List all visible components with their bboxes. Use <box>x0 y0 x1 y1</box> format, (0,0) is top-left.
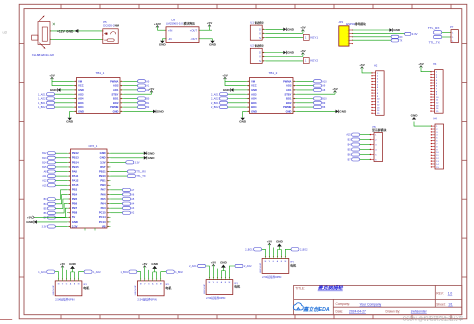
wire to net A8 <box>297 89 314 91</box>
svg-text:2_BO1: 2_BO1 <box>211 102 219 105</box>
svg-text:+5V: +5V <box>300 49 305 53</box>
svg-text:XH-8812D11-G8: XH-8812D11-G8 <box>32 53 54 57</box>
svg-text:zwhsonder: zwhsonder <box>411 310 428 314</box>
wire bottom GND <box>243 111 246 117</box>
net label A0 <box>138 80 146 83</box>
ground flag <box>72 269 74 272</box>
net label A1 <box>138 84 146 87</box>
svg-text:1_AO1: 1_AO1 <box>38 93 46 96</box>
motor driver TB1_2 <box>246 78 298 114</box>
svg-text:B12: B12 <box>42 152 47 155</box>
wire ESP32 pin3 <box>352 36 391 38</box>
svg-text:B10: B10 <box>322 98 327 101</box>
power flag +5V STBY <box>151 91 153 95</box>
svg-text:3.3V: 3.3V <box>42 225 47 228</box>
power flag +5V <box>302 30 304 34</box>
svg-text:排母模块: 排母模块 <box>355 22 366 26</box>
svg-text:2024-04-27: 2024-04-27 <box>349 310 366 314</box>
net label B7 <box>352 158 360 161</box>
svg-text:嘉立创EDA: 嘉立创EDA <box>302 306 330 313</box>
regulator module U7 LM2596S-5.0 <box>165 27 199 43</box>
svg-text:+OUT: +OUT <box>190 28 198 32</box>
wire net B15 <box>55 166 67 168</box>
net label 2_AO2 <box>235 264 243 267</box>
wire net A6 <box>111 193 123 195</box>
wire to net 1_BO2 <box>55 106 73 108</box>
svg-text:电机: 电机 <box>290 263 296 268</box>
svg-text:GND: GND <box>66 119 74 123</box>
port KEY2 <box>303 58 309 64</box>
svg-text:2.54接插件6PIN: 2.54接插件6PIN <box>262 275 281 279</box>
net label TTL_TX <box>127 175 135 178</box>
svg-text:NM: NM <box>115 24 120 28</box>
wire to net 1_AO1 <box>55 93 73 95</box>
wire to GND <box>152 272 154 279</box>
svg-text:PWMB: PWMB <box>110 105 118 109</box>
svg-text:GND: GND <box>50 88 58 92</box>
svg-text:+12V: +12V <box>154 22 161 26</box>
svg-text:+12V: +12V <box>57 29 66 33</box>
wire to net B9 <box>297 102 314 104</box>
svg-text:A12: A12 <box>42 180 47 183</box>
svg-text:U2: U2 <box>250 44 254 48</box>
net label 2_AO1 <box>198 264 206 267</box>
svg-text:AO3: AO3 <box>78 92 84 96</box>
svg-text:BO1: BO1 <box>113 97 119 101</box>
svg-text:+5V: +5V <box>211 261 216 265</box>
svg-text:TB1_1: TB1_1 <box>96 71 105 75</box>
svg-text:XH2.54-6P: XH2.54-6P <box>204 283 206 294</box>
net label 2_AO1 <box>220 93 228 96</box>
net label B7 <box>48 216 56 219</box>
net label 1_BO2 <box>166 270 174 273</box>
wire 3.3V <box>111 161 126 163</box>
wire to net B10 <box>297 98 314 100</box>
motor connector 1_BO1/1_BO2 <box>137 278 164 295</box>
wire GND right <box>124 110 153 112</box>
wire G pin to ground <box>266 52 284 54</box>
net label B2 <box>138 106 146 109</box>
net label B14 <box>48 161 56 164</box>
wire to net 1_BO1 <box>137 272 141 279</box>
svg-text:TB1_2: TB1_2 <box>269 71 278 75</box>
svg-text:PB1: PB1 <box>100 179 106 183</box>
ground flag <box>34 220 37 224</box>
logo JLC EDA <box>293 303 330 313</box>
svg-text:BO2: BO2 <box>113 101 119 105</box>
wire 3.3V pin <box>55 225 67 227</box>
wire TTL_TX <box>111 175 128 177</box>
wire net A5 <box>111 198 123 200</box>
net label 3.3V bottom <box>48 225 56 228</box>
net label 2_BO2 <box>291 248 299 251</box>
wire net B6 <box>55 204 67 213</box>
svg-text:2_AO2: 2_AO2 <box>211 98 219 101</box>
svg-text:P7: P7 <box>450 25 454 29</box>
net label 1_AO2 <box>47 97 55 100</box>
wire S pin to port <box>266 60 304 62</box>
wire net B6 to H5 <box>360 153 370 155</box>
title block <box>294 285 462 314</box>
net label B6 <box>48 211 56 214</box>
wire ESP32 pin2 to 3.3V label <box>352 32 404 34</box>
net label 1_AO2 <box>84 270 92 273</box>
svg-text:2_AO1: 2_AO1 <box>211 93 219 96</box>
net label A10 <box>314 80 322 83</box>
svg-text:STBY: STBY <box>111 92 118 96</box>
power flag +5V <box>224 77 226 81</box>
svg-text:1.0: 1.0 <box>448 292 453 296</box>
svg-text:JP1: JP1 <box>338 20 343 24</box>
svg-text:3.3V: 3.3V <box>412 32 418 36</box>
svg-text:PB0: PB0 <box>100 183 106 187</box>
ground flag <box>154 269 156 272</box>
svg-text:PB13: PB13 <box>72 156 79 160</box>
wire STBY to +5V <box>124 93 152 95</box>
motor connector 1_AO1/1_AO2 <box>55 278 82 295</box>
sensor module U2 <box>250 48 265 63</box>
svg-text:+5V: +5V <box>222 74 227 78</box>
sensor module U1 <box>250 25 265 40</box>
motor connector 2_BO1/2_BO2 <box>262 256 289 273</box>
net label B13 <box>48 156 56 159</box>
wire to net A2 <box>124 89 138 91</box>
power flag +5V <box>51 77 53 81</box>
wire 5V pin <box>35 216 68 218</box>
svg-text:B13: B13 <box>42 157 47 160</box>
power flag +5V <box>302 53 304 57</box>
net label +12V GND on wire <box>57 29 78 33</box>
svg-text:GND: GND <box>251 110 257 114</box>
wire net B4 <box>55 194 67 203</box>
svg-text:AO4: AO4 <box>251 97 257 101</box>
ground at regulator output <box>212 39 214 41</box>
svg-text:GND: GND <box>26 220 34 224</box>
svg-text:A15: A15 <box>42 184 47 187</box>
svg-text:2_BO2: 2_BO2 <box>211 106 219 109</box>
svg-text:KEY1: KEY1 <box>310 36 318 40</box>
wire to +5V <box>212 267 214 278</box>
svg-text:PB3: PB3 <box>72 188 78 192</box>
wire net A15 <box>55 184 67 186</box>
svg-text:麦克纳姆轮: 麦克纳姆轮 <box>318 285 344 292</box>
svg-text:BO3: BO3 <box>251 101 257 105</box>
svg-text:PB14: PB14 <box>72 160 79 164</box>
svg-text:PC15: PC15 <box>99 211 106 215</box>
svg-text:AO4: AO4 <box>78 97 84 101</box>
svg-text:电机: 电机 <box>165 285 171 290</box>
wire to GND <box>220 271 222 278</box>
net label 1_AO1 <box>47 270 55 273</box>
wire to +5V <box>62 268 64 279</box>
wire net B5 to H5 <box>360 148 370 150</box>
wire -IN to ground <box>162 38 166 40</box>
wire GND pin <box>234 89 246 91</box>
wire net A7 <box>111 189 123 191</box>
svg-text:LM2596S-5.0: LM2596S-5.0 <box>166 22 183 26</box>
wire to net A1 <box>124 85 138 87</box>
pin header H2 <box>371 71 384 116</box>
wire GND2 <box>111 157 144 159</box>
wire +OUT to +5V <box>199 29 212 31</box>
svg-text:TTL_RX: TTL_RX <box>136 170 146 174</box>
svg-text:U1: U1 <box>250 20 254 24</box>
wire to net A9 <box>297 85 314 87</box>
svg-text:3.3V: 3.3V <box>100 160 106 164</box>
wire TTL_TX to P7 <box>442 36 451 38</box>
svg-text:3.3V: 3.3V <box>72 224 78 228</box>
ground flag right <box>336 110 339 114</box>
svg-text:+IN: +IN <box>168 28 172 32</box>
wire GND to H4 <box>414 122 431 127</box>
svg-text:GND: GND <box>276 240 284 244</box>
wire switch pin2 to DC jack <box>50 38 102 40</box>
wire to net 1_AO2 <box>55 98 73 100</box>
net label 1_BO1 <box>129 270 137 273</box>
net label B3 <box>48 198 56 201</box>
svg-text:TTL_TX: TTL_TX <box>429 40 440 44</box>
net label 2_AO2 <box>220 97 228 100</box>
svg-text:GND: GND <box>72 220 78 224</box>
svg-text:2.54接插件6PIN: 2.54接插件6PIN <box>55 298 74 302</box>
svg-text:XH2.54-6P: XH2.54-6P <box>135 285 137 296</box>
svg-text:GND: GND <box>113 110 119 114</box>
wire to net B2 <box>124 106 138 108</box>
net label A15 <box>48 184 56 187</box>
net label A9 <box>314 84 322 87</box>
wire ESP32 pin4 <box>352 39 391 41</box>
net label B4 <box>352 143 360 146</box>
svg-text:PB15: PB15 <box>72 165 79 169</box>
svg-text:PB12: PB12 <box>72 151 79 155</box>
svg-text:VM: VM <box>78 79 82 83</box>
svg-text:1_BO2: 1_BO2 <box>38 106 46 109</box>
net label B3 <box>352 138 360 141</box>
svg-text:PA11: PA11 <box>72 174 79 178</box>
svg-text:GND: GND <box>148 151 156 155</box>
wire to net 1_BO1 <box>55 102 73 104</box>
net label B12 <box>48 152 56 155</box>
svg-text:GND: GND <box>100 151 106 155</box>
svg-text:BO3: BO3 <box>78 101 84 105</box>
svg-text:PA3: PA3 <box>101 206 107 210</box>
ground flag right <box>153 110 156 114</box>
svg-text:VB: VB <box>102 224 106 228</box>
svg-text:GND: GND <box>239 119 247 123</box>
wire net B12 <box>55 152 67 154</box>
svg-text:GND: GND <box>159 42 167 46</box>
ground flag <box>278 247 280 250</box>
wire to net B8 <box>297 106 314 108</box>
svg-text:+5V: +5V <box>49 74 54 78</box>
net label B8 <box>314 106 322 109</box>
svg-text:A10: A10 <box>322 80 327 83</box>
svg-text:RX: RX <box>399 37 403 39</box>
svg-text:2_BO2: 2_BO2 <box>300 248 308 251</box>
svg-text:PC13: PC13 <box>99 220 106 224</box>
wire ESP32 pin1 to ground <box>352 29 389 31</box>
svg-text:2_BO1: 2_BO1 <box>245 248 253 251</box>
svg-text:Date:: Date: <box>336 309 344 313</box>
ground flag <box>222 268 224 271</box>
svg-text:PC14: PC14 <box>99 215 106 219</box>
svg-text:TTL_RX: TTL_RX <box>428 26 440 30</box>
svg-text:GND: GND <box>286 110 292 114</box>
wire net B14 <box>55 161 67 163</box>
ground flag H4 <box>412 117 416 119</box>
svg-text:2_AO2: 2_AO2 <box>244 265 252 268</box>
svg-text:+5V: +5V <box>300 26 305 30</box>
connector P5 DC005-2 NM <box>102 29 118 44</box>
net label A2 <box>138 88 146 91</box>
svg-text:GND: GND <box>287 51 295 55</box>
net label 2_BO2 <box>220 106 228 109</box>
wire to +5V <box>268 246 270 257</box>
svg-text:PB5: PB5 <box>72 197 78 201</box>
net label TXD <box>391 39 399 42</box>
svg-text:GND: GND <box>66 29 74 33</box>
net label A8 <box>314 88 322 91</box>
net label B1 <box>138 101 146 104</box>
wire net A4 <box>111 203 123 205</box>
svg-text:1_BO2: 1_BO2 <box>175 271 183 274</box>
net label A7 <box>123 188 131 191</box>
net label A15 <box>352 133 360 136</box>
svg-text:显示屏模块: 显示屏模块 <box>372 127 387 132</box>
wire to net A10 <box>297 80 314 82</box>
wire net A3 <box>111 207 123 209</box>
svg-text:PWMA: PWMA <box>283 79 291 83</box>
svg-text:BO4: BO4 <box>78 105 84 109</box>
wire V pin to +5V <box>266 56 303 58</box>
svg-text:GND: GND <box>78 88 84 92</box>
wire GND right <box>297 110 336 112</box>
ground flag <box>58 88 61 92</box>
svg-text:电机: 电机 <box>83 285 89 290</box>
svg-text:+5V: +5V <box>359 63 364 67</box>
svg-text:PA15: PA15 <box>72 183 79 187</box>
svg-text:VCC: VCC <box>78 84 84 88</box>
wire to GND <box>276 250 278 257</box>
net label A11 <box>48 175 56 178</box>
wire net A12 <box>55 180 67 182</box>
motor driver TB1_1 <box>73 78 125 114</box>
connector JP1 ESP32 module <box>339 26 353 46</box>
wire to net 2_BO1 <box>262 249 266 256</box>
net label A5 <box>123 197 131 200</box>
svg-text:+5V: +5V <box>142 262 147 266</box>
power flag +12V <box>156 26 158 31</box>
net label 1_BO2 <box>47 106 55 109</box>
wire to +5V <box>144 268 146 279</box>
MCU module CPX_1 STM32 <box>67 149 111 231</box>
wire net B5 <box>55 199 67 208</box>
svg-text:GND: GND <box>148 156 156 160</box>
svg-text:1_AO2: 1_AO2 <box>38 98 46 101</box>
power flag +5V <box>212 264 214 266</box>
svg-text:PB4: PB4 <box>72 192 78 196</box>
svg-text:VM: VM <box>251 79 255 83</box>
svg-text:AO1: AO1 <box>113 88 119 92</box>
svg-text:XH2.54-6P: XH2.54-6P <box>53 285 55 296</box>
svg-text:模块降压: 模块降压 <box>184 21 196 26</box>
svg-text:RST: RST <box>100 165 106 169</box>
wire TTL_RX <box>111 171 128 173</box>
wire net B3 <box>55 190 67 199</box>
svg-text:2_AO1: 2_AO1 <box>189 265 197 268</box>
wire net B3 to H5 <box>360 139 370 141</box>
svg-text:PA6: PA6 <box>101 192 107 196</box>
svg-text:GND: GND <box>251 88 257 92</box>
svg-text:BO4: BO4 <box>251 105 257 109</box>
svg-text:STBY: STBY <box>284 92 291 96</box>
svg-text:BO2: BO2 <box>286 101 292 105</box>
watermark artifact bottom left <box>0 318 12 320</box>
svg-text:+5V: +5V <box>332 87 337 91</box>
svg-text:GND: GND <box>223 88 231 92</box>
ground flag bottom <box>69 116 71 119</box>
net label 1_BO1 <box>47 101 55 104</box>
net label TTL_RX <box>127 170 135 173</box>
svg-text:PA12: PA12 <box>72 179 79 183</box>
svg-text:Company:: Company: <box>336 302 351 306</box>
wire to net 2_BO2 <box>285 249 291 256</box>
wire GND pin <box>37 221 67 223</box>
net label B5 <box>352 148 360 151</box>
svg-text:GND: GND <box>220 261 228 265</box>
svg-text:G: G <box>259 52 261 55</box>
power flag +5V STBY <box>334 91 336 95</box>
net label 2_BO1 <box>254 248 262 251</box>
wire S pin to port <box>266 37 304 39</box>
svg-text:A15: A15 <box>346 134 351 137</box>
svg-text:PWMA: PWMA <box>110 79 118 83</box>
wire net B4 to H5 <box>360 144 370 146</box>
svg-text:GND: GND <box>393 28 401 32</box>
wire +5V to H2 <box>362 68 372 73</box>
svg-text:+5V: +5V <box>27 216 32 220</box>
connector P7 <box>450 30 458 43</box>
svg-text:2.54接插件6PIN: 2.54接插件6PIN <box>206 296 225 300</box>
svg-text:REV:: REV: <box>436 292 443 296</box>
wire to net 2_AO1 <box>206 266 210 278</box>
net label A2 <box>123 211 131 214</box>
svg-text:Your Company: Your Company <box>360 302 382 306</box>
net label 3.3V <box>126 161 134 164</box>
motor connector 2_AO1/2_AO2 <box>206 277 233 294</box>
ground flag <box>144 156 147 160</box>
svg-text:PB11: PB11 <box>99 169 106 173</box>
svg-text:GND: GND <box>100 156 106 160</box>
svg-text:-OUT: -OUT <box>190 37 197 41</box>
wire to net B1 <box>124 102 138 104</box>
svg-text:GND: GND <box>339 110 347 114</box>
wire to net 2_AO1 <box>228 93 246 95</box>
svg-text:BO1: BO1 <box>286 97 292 101</box>
wire to net 2_BO1 <box>228 102 246 104</box>
svg-text:2.54接插件6PIN: 2.54接插件6PIN <box>137 298 156 302</box>
pin header H4 <box>431 124 444 169</box>
svg-text:CPX_1: CPX_1 <box>89 144 98 148</box>
wire to net B0 <box>124 98 138 100</box>
wire G pin to ground <box>266 28 284 30</box>
svg-text:GND: GND <box>157 110 165 114</box>
port KEY1 <box>303 34 309 40</box>
net label A4 <box>123 202 131 205</box>
svg-text:+5V: +5V <box>267 240 272 244</box>
net label B6 <box>352 153 360 156</box>
wire net B7 to H5 <box>360 158 370 160</box>
